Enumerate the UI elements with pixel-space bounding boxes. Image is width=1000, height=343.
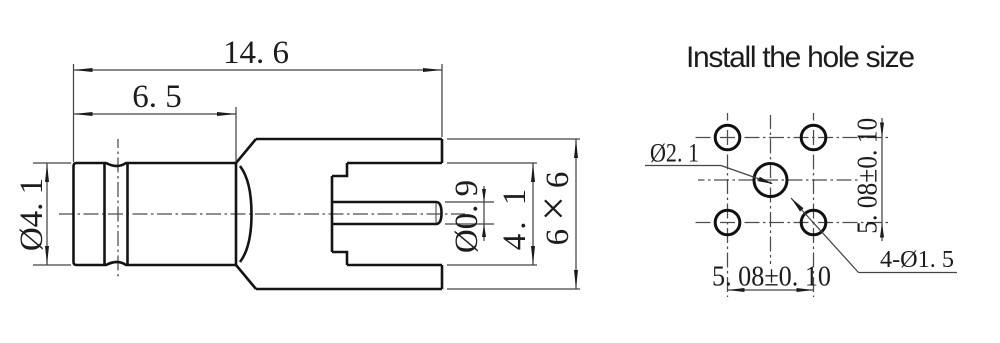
dimension 4.1 (fork opening) [447,163,537,265]
wire: centerline bottom row horizontal [692,222,889,224]
wire: top prong right edge [441,139,444,163]
wire: centerline right column vertical [813,113,815,297]
wire: 4.1 dimension line [532,163,534,265]
svg-text:14. 6: 14. 6 [223,35,289,71]
wire: notch step bottom [332,252,347,265]
wire: extension line pin bottom [445,223,494,225]
arrow 6x6 top [574,139,578,158]
arrow Ø2.1 leader [758,177,773,184]
wire: notch bottom inner edge [347,264,442,267]
arrow 14.6 right [423,68,442,72]
dimension Ø4.1 (left) [33,163,71,265]
leader 4-Ø1.5 [791,198,957,273]
wire: notch step top [332,163,347,176]
svg-text:6. 5: 6. 5 [132,79,182,115]
hole bottom-left Ø1.5 [715,210,740,235]
wire: extension line notch top [447,162,537,164]
arrow 4.1 top [531,163,535,182]
wire: center pin rounded tip [436,202,442,224]
arrow 5.08 right top (outside, pointing down) [880,123,884,138]
wire: dimension line [728,289,814,291]
hole top-right Ø1.5 [801,125,826,150]
svg-text:Ø2. 1: Ø2. 1 [650,139,699,168]
arrow 6.5 left [74,112,93,116]
wire: center pin top edge [332,201,436,204]
wire: notch top inner edge [347,162,442,165]
arrow 6.5 right [217,112,236,116]
arrow Ø0.9 upper (outside, pointing down) [482,189,486,202]
dimension 6x6 (body) [447,139,580,289]
wire: leader diagonal through bottom-right hole [791,198,859,273]
connector body outline (cylinder + left face + groove walls) [74,139,443,289]
wire: body bottom edge [256,288,442,291]
svg-text:Ø0. 9: Ø0. 9 [449,180,485,253]
arrow 5.08 bottom right [797,288,814,292]
wire: label underline [859,272,958,274]
wire: centerline left column vertical [727,113,729,297]
wire: centerline top row horizontal [692,137,889,139]
wire: horizontal centerline of connector [59,213,465,215]
wire: extension line pin top [445,201,494,203]
wire: notch left wall [331,176,334,252]
dimension 14.6 [74,64,443,162]
wire: extension line right of 6.5 [235,107,237,162]
wire: step at end of cylinder [235,163,238,265]
svg-text:5. 08±0. 10: 5. 08±0. 10 [712,262,831,293]
wire: cylinder bottom edge with groove dip [77,262,237,265]
svg-text:Install the hole size: Install the hole size [686,41,915,74]
wire: extension line right of 14.6 [441,64,443,137]
hole bottom-right Ø1.5 [801,210,826,235]
wire: 6.5 dimension line [74,113,237,115]
wire: body top edge [256,138,442,141]
hole top-left Ø1.5 [715,125,740,150]
wire: leader diagonal to center hole [721,166,772,184]
wire: left face [74,163,77,265]
svg-text:4-Ø1. 5: 4-Ø1. 5 [880,247,954,273]
wire: 6x6 dimension line [575,139,577,289]
wire: groove right wall [126,164,129,264]
arrow 5.08 right bottom (outside, pointing up) [880,223,884,238]
wire: centerline middle horizontal [698,179,859,181]
wire: center pin bottom edge [332,223,436,226]
wire: groove left wall [103,164,106,264]
wire: pin tip arc-center tick [435,204,437,223]
wire: flare silhouette arc [240,166,252,262]
wire: dimension line vertical [881,118,883,241]
wire: extension line left (shared 14.6/6.5) [73,64,75,162]
dimension Ø0.9 (pin) [445,186,494,241]
arrow 14.6 left [74,68,93,72]
wire: extension line body bottom [447,288,580,290]
arrow Ø0.9 lower (outside, pointing up) [482,224,486,237]
arrow 5.08 bottom left [728,288,745,292]
wire: extension line bottom [33,264,71,266]
wire: label underline [645,165,721,167]
leader Ø2.1 [645,166,772,184]
wire: extension line notch bottom [447,264,537,266]
dimension 5.08±0.10 right [881,118,883,241]
dimension 5.08±0.10 bottom [728,289,814,291]
wire: cylinder top edge with groove dip [77,163,237,166]
svg-text:4. 1: 4. 1 [497,185,533,251]
wire: vertical centerline through groove [117,139,119,277]
wire: flare top diagonal [236,139,256,163]
svg-text:5. 08±0. 10: 5. 08±0. 10 [853,118,884,234]
dimension 6.5 [74,107,237,162]
wire: flare bottom diagonal [236,265,256,289]
wire: centerline center column vertical [770,115,772,264]
wire: extension line body top [447,138,580,140]
wire: 14.6 dimension line [74,69,443,71]
hole center Ø2.1 [754,164,787,197]
wire: Ø0.9 dimension line [483,186,485,241]
arrow Ø4.1 bottom [45,246,49,265]
wire: Ø4.1 dimension line [46,163,48,265]
arrow 4.1 bottom [531,246,535,265]
wire: bottom prong right edge [441,265,444,289]
arrow Ø4.1 top [45,163,49,182]
wire: extension line top [33,162,71,164]
arrow 4-Ø1.5 leader [791,198,804,212]
svg-text:Ø4. 1: Ø4. 1 [14,178,50,251]
svg-text:6×6: 6×6 [529,164,578,246]
arrow 6x6 bottom [574,270,578,289]
